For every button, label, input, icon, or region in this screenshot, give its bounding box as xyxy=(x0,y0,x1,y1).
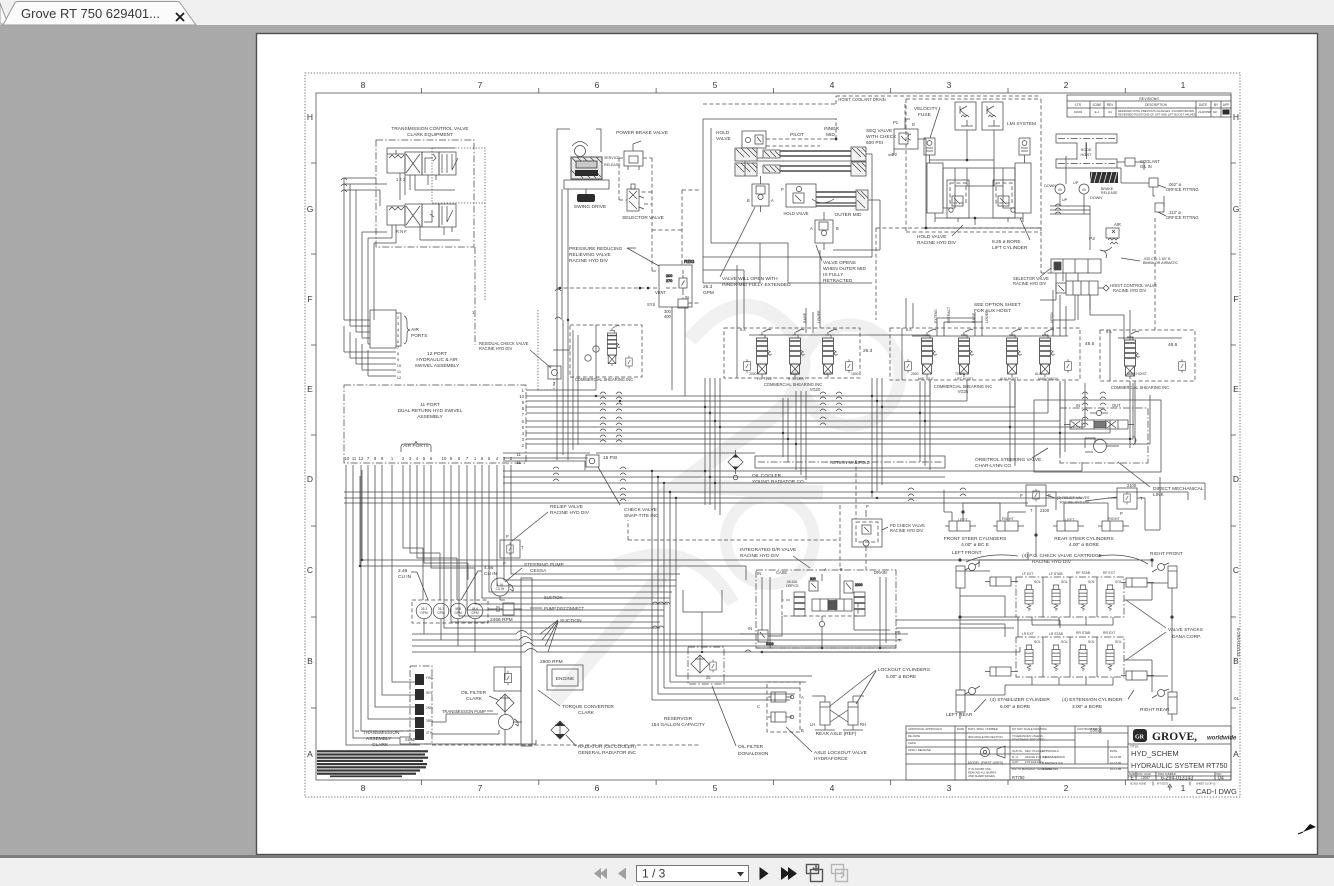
valve V2 body xyxy=(387,204,456,227)
hold valve sub-box right xyxy=(993,180,1015,218)
svg-text:(4) STABILIZER CYLINDER: (4) STABILIZER CYLINDER xyxy=(990,697,1050,703)
svg-text:SOL: SOL xyxy=(1034,640,1041,644)
svg-text:SOL: SOL xyxy=(1061,640,1068,644)
center spool horizontal xyxy=(812,599,852,611)
svg-text:PUMP DISCONNECT: PUMP DISCONNECT xyxy=(544,606,584,611)
svg-text:HOLD VALVE: HOLD VALVE xyxy=(917,234,946,240)
svg-text:RACINE HYD DIV: RACINE HYD DIV xyxy=(479,346,512,351)
wires from transmission valves to left bus xyxy=(344,148,460,344)
corner cylinder top-left xyxy=(956,562,980,596)
svg-text:WT (EST): WT (EST) xyxy=(1157,783,1168,786)
svg-text:6: 6 xyxy=(595,80,600,90)
pump disconnect xyxy=(503,603,514,615)
svg-text:RIGHT REAR: RIGHT REAR xyxy=(1140,707,1170,713)
svg-text:MID: MID xyxy=(826,132,835,138)
corner cylinder top-right xyxy=(1152,563,1177,596)
svg-text:GR: GR xyxy=(1135,735,1145,741)
bank spool left group xyxy=(607,325,620,366)
svg-text:IN: IN xyxy=(748,626,752,631)
svg-text:D: D xyxy=(1233,474,1239,484)
dotted pilot box xyxy=(432,148,485,300)
selector valve bar xyxy=(1051,259,1101,273)
grid column numbers bottom xyxy=(361,783,1186,793)
check ball xyxy=(1096,410,1101,415)
svg-text:P: P xyxy=(1020,493,1023,498)
return manifold bar xyxy=(755,456,945,468)
svg-text:PORTS: PORTS xyxy=(411,333,427,339)
svg-text:1 / 3: 1 / 3 xyxy=(642,867,666,881)
left vertical wires swing drive down xyxy=(557,188,562,460)
svg-text:2000: 2000 xyxy=(855,583,863,587)
svg-text:RESERVOIR: RESERVOIR xyxy=(664,716,693,722)
svg-text:ASSEMBLY: ASSEMBLY xyxy=(366,736,392,742)
toolbar separator xyxy=(0,855,1334,858)
svg-text:DOWN: DOWN xyxy=(1090,196,1102,200)
suction wavy lines crossing column xyxy=(412,631,908,653)
svg-text:8.25 ø BORE: 8.25 ø BORE xyxy=(992,239,1021,245)
svg-text:AUX: AUX xyxy=(1035,372,1043,376)
svg-text:48.6: 48.6 xyxy=(1168,342,1178,348)
cylinder base wires xyxy=(935,213,1023,225)
wires into 12 port swivel xyxy=(344,320,396,376)
dashed riser near orifice column xyxy=(1154,218,1156,330)
svg-text:3RD.: 3RD. xyxy=(426,719,433,723)
swing drive brake knob xyxy=(577,194,595,202)
svg-text:SOL: SOL xyxy=(1061,580,1068,584)
svg-text:VALVE OPENS: VALVE OPENS xyxy=(823,260,856,266)
svg-text:6.00" ø BORE: 6.00" ø BORE xyxy=(1000,704,1030,710)
hoist control valve xyxy=(1056,281,1109,295)
svg-text:RAISE: RAISE xyxy=(972,312,976,323)
svg-text:48.6: 48.6 xyxy=(1085,341,1095,347)
svg-text:P2: P2 xyxy=(892,152,898,157)
svg-text:RIGHT: RIGHT xyxy=(1108,517,1120,521)
svg-text:B A: B A xyxy=(906,328,912,332)
svg-text:TDWR: TDWR xyxy=(955,372,966,376)
svg-text:AND SHARP EDGES: AND SHARP EDGES xyxy=(968,774,995,778)
svg-text:2.46: 2.46 xyxy=(398,568,408,574)
svg-text:H: H xyxy=(307,112,313,122)
svg-text:1: 1 xyxy=(1181,783,1186,793)
svg-text:ORFICE FITTING: ORFICE FITTING xyxy=(1166,187,1199,192)
REG block xyxy=(659,259,695,307)
grid tick marks top/bottom xyxy=(311,88,1236,785)
svg-text:APPROVALS: APPROVALS xyxy=(1042,749,1059,753)
grid row letters left xyxy=(307,112,314,759)
lift cylinder right xyxy=(1003,163,1031,213)
svg-text:2466 RPM: 2466 RPM xyxy=(490,617,513,623)
stack wires xyxy=(959,559,1174,695)
inner mid rod line xyxy=(745,158,866,176)
svg-text:E: E xyxy=(307,384,313,394)
svg-text:SYS: SYS xyxy=(647,302,655,307)
bottom port numbers row xyxy=(345,456,513,461)
hold valve B/A below bar xyxy=(752,176,769,212)
svg-text:VALVE STACKS: VALVE STACKS xyxy=(1168,627,1203,633)
svg-text:2500: 2500 xyxy=(911,372,919,376)
left cell tiny labels xyxy=(908,727,1122,778)
swing drive arc xyxy=(572,142,588,147)
svg-text:3.00" ø BORE: 3.00" ø BORE xyxy=(1072,704,1102,710)
swing drive top circle xyxy=(575,146,586,157)
svg-text:6-294-013143: 6-294-013143 xyxy=(1236,628,1241,657)
svg-text:HOIST COOLANT DRAIN: HOIST COOLANT DRAIN xyxy=(838,97,885,102)
svg-text:LMI SYSTEM: LMI SYSTEM xyxy=(1007,121,1036,127)
svg-text:APFD / RELEASE: APFD / RELEASE xyxy=(908,748,931,752)
orifice fitting 062 xyxy=(1149,178,1158,187)
rear steer relief valve xyxy=(1117,488,1137,509)
svg-text:LOWER: LOWER xyxy=(817,310,821,323)
svg-text:26.3: 26.3 xyxy=(863,348,873,354)
D/R wires xyxy=(740,574,1020,652)
svg-text:11 PORT: 11 PORT xyxy=(420,402,440,408)
upper trunk bundle from swivel to valve banks xyxy=(526,325,1150,444)
svg-text:UP/DN: UP/DN xyxy=(1050,312,1054,323)
leftover tab fragment xyxy=(0,3,8,24)
PO check valve xyxy=(852,510,882,547)
svg-text:AIR PORTS: AIR PORTS xyxy=(403,443,429,449)
oil filter donaldson box xyxy=(688,647,724,684)
svg-text:HYD_SCHEM: HYD_SCHEM xyxy=(1131,749,1179,758)
svg-text:DEC. PLACES: DEC. PLACES xyxy=(1025,749,1044,753)
svg-text:4.00": 4.00" xyxy=(1012,760,1018,764)
inner dashed box xyxy=(782,600,858,616)
svg-text:OUT: OUT xyxy=(1112,403,1121,408)
swing drive motor body (hatched) xyxy=(571,157,602,179)
svg-text:SOL: SOL xyxy=(1088,640,1095,644)
svg-text:EXTEND: EXTEND xyxy=(934,309,938,323)
svg-text:RE-DATE: RE-DATE xyxy=(908,734,920,738)
selector valve drops xyxy=(1053,273,1075,336)
svg-text:RR EXT: RR EXT xyxy=(1103,631,1115,635)
svg-text:SHEET 01 OF 03: SHEET 01 OF 03 xyxy=(1196,783,1216,786)
svg-text:E: E xyxy=(1233,384,1239,394)
svg-text:ASSEMBLY: ASSEMBLY xyxy=(417,414,443,420)
svg-text:R.BARTHOLOW: R.BARTHOLOW xyxy=(1042,761,1063,765)
svg-text:AIR: AIR xyxy=(1114,222,1121,227)
svg-text:HYDRAULIC & AIR: HYDRAULIC & AIR xyxy=(416,357,458,363)
svg-text:600 PSI: 600 PSI xyxy=(866,140,883,146)
front steer relief valve xyxy=(1026,485,1046,506)
svg-text:8: 8 xyxy=(361,80,366,90)
hump crossings lower xyxy=(553,467,966,501)
transmission assembly box xyxy=(410,666,432,744)
svg-text:GPM: GPM xyxy=(454,611,462,615)
dashed enclosure of lift circuit xyxy=(906,99,1041,232)
12 port swivel box xyxy=(370,310,396,348)
svg-text:4TH.: 4TH. xyxy=(426,731,433,735)
svg-text:REVISIONS: REVISIONS xyxy=(1139,97,1159,101)
svg-text:WITH CHECK: WITH CHECK xyxy=(866,134,897,140)
svg-text:(4) EXTENSION CYLINDER: (4) EXTENSION CYLINDER xyxy=(1062,697,1123,703)
brake release hatched block xyxy=(1090,172,1118,183)
svg-text:12067: 12067 xyxy=(1141,776,1150,780)
svg-text:B: B xyxy=(747,198,750,203)
svg-text:LF EXT: LF EXT xyxy=(1022,572,1034,576)
torque converter tall column xyxy=(521,578,532,746)
dashed box lower right xyxy=(876,228,1041,320)
svg-text:AUX HOIST: AUX HOIST xyxy=(1000,377,1018,381)
transmission wires xyxy=(432,667,522,734)
svg-text:3: 3 xyxy=(947,783,952,793)
svg-text:10: 10 xyxy=(519,394,524,399)
corner cylinder bottom-right xyxy=(1152,689,1177,721)
P hold valve xyxy=(786,184,816,207)
projection symbol xyxy=(980,746,1005,758)
reservoir tank xyxy=(683,590,722,650)
15 psi check valve xyxy=(586,455,599,467)
svg-text:FRONT STEER CYLINDERS: FRONT STEER CYLINDERS xyxy=(944,536,1007,542)
svg-text:RELEASE: RELEASE xyxy=(1101,191,1118,195)
upper dana stack xyxy=(1016,577,1124,617)
svg-text:SWIVEL ASSEMBLY: SWIVEL ASSEMBLY xyxy=(415,363,460,369)
wavy crossing marks on left bus xyxy=(341,178,347,192)
tab close x xyxy=(176,13,184,21)
svg-text:TORQUE CONVERTER: TORQUE CONVERTER xyxy=(562,704,614,710)
corner cylinder bottom-left xyxy=(956,686,980,719)
svg-text:VALVE: VALVE xyxy=(716,136,731,142)
svg-text:P1: P1 xyxy=(893,120,899,125)
wires right to lift area xyxy=(712,154,872,257)
svg-text:HOLD VALVE: HOLD VALVE xyxy=(783,211,808,216)
svg-text:RELEASE: RELEASE xyxy=(604,163,621,167)
svg-text:AIR: AIR xyxy=(411,327,420,333)
svg-text:LEFT REAR: LEFT REAR xyxy=(946,712,973,718)
outer boundary wires xyxy=(703,119,837,257)
svg-text:OUTER MID: OUTER MID xyxy=(835,212,862,218)
svg-text:RACINE HYD DIV: RACINE HYD DIV xyxy=(550,510,590,516)
svg-text:RAISE: RAISE xyxy=(803,312,807,323)
hold valve sub-box left xyxy=(947,180,969,218)
svg-text:GK: GK xyxy=(1213,110,1217,114)
svg-text:B: B xyxy=(836,226,839,231)
svg-text:P: P xyxy=(1120,511,1123,516)
svg-text:LH: LH xyxy=(810,722,815,727)
svg-text:LTR: LTR xyxy=(1075,103,1081,107)
sheet pointer mark xyxy=(1168,784,1172,790)
svg-text:C: C xyxy=(757,704,760,709)
svg-text:4: 4 xyxy=(830,80,835,90)
valve bank VG35 xyxy=(890,328,1080,380)
vertical drops from valve banks xyxy=(705,378,1135,515)
svg-text:CU IN: CU IN xyxy=(484,571,498,577)
svg-text:REV.: REV. xyxy=(426,691,433,695)
svg-text:P: P xyxy=(1048,493,1051,498)
svg-text:2: 2 xyxy=(1064,783,1069,793)
svg-text:12: 12 xyxy=(359,456,364,461)
svg-text:ORBITROL STEERING VALVE: ORBITROL STEERING VALVE xyxy=(975,457,1041,463)
right spool xyxy=(854,592,865,616)
svg-text:LIFT: LIFT xyxy=(824,372,831,376)
svg-text:LEFT FRONT: LEFT FRONT xyxy=(952,550,982,556)
svg-text:12: 12 xyxy=(397,375,402,380)
wires hoist to coolant xyxy=(1117,162,1164,207)
horizontal cylinders xyxy=(985,577,1018,586)
svg-text:A: A xyxy=(801,695,804,700)
svg-text:LEFT: LEFT xyxy=(1065,518,1075,522)
svg-text:SNAP-TITE INC: SNAP-TITE INC xyxy=(624,513,659,519)
svg-text:SUCTION: SUCTION xyxy=(560,618,582,624)
svg-text:10: 10 xyxy=(397,363,402,368)
svg-text:A: A xyxy=(1233,749,1239,759)
bottom toolbar xyxy=(0,858,1334,886)
lower trunk bundle xyxy=(346,453,755,745)
svg-text:COMMERCIAL SHEARING INC: COMMERCIAL SHEARING INC xyxy=(1111,385,1169,390)
svg-text:04: 04 xyxy=(1218,776,1224,782)
svg-text:PB: PB xyxy=(895,630,901,635)
svg-text:A: A xyxy=(810,226,813,231)
pump circles row xyxy=(412,600,488,623)
svg-text:D: D xyxy=(307,474,313,484)
swing drive base plate xyxy=(564,180,609,189)
svg-text:GPM: GPM xyxy=(703,290,714,296)
svg-text:CESSA: CESSA xyxy=(530,568,547,574)
hump crossings on trunk xyxy=(600,392,1106,442)
LMI solenoid box 1 xyxy=(955,102,976,130)
svg-text:RT750: RT750 xyxy=(1012,775,1025,780)
svg-text:REVERSED POSITIONS OF LIFT AND: REVERSED POSITIONS OF LIFT AND LIFT BOOS… xyxy=(1118,113,1196,117)
tab bar xyxy=(0,0,1334,25)
svg-text:CHKD: CHKD xyxy=(908,741,916,745)
svg-text:RF EXT: RF EXT xyxy=(1103,571,1115,575)
svg-text:FWD.: FWD. xyxy=(426,676,434,680)
dashed risers above D/R xyxy=(628,460,866,570)
svg-text:10-17-86: 10-17-86 xyxy=(1110,761,1122,765)
hoist wires xyxy=(1060,142,1086,214)
svg-text:TRANSMISSION CONTROL VALVE: TRANSMISSION CONTROL VALVE xyxy=(391,126,468,132)
svg-text:RETRACT: RETRACT xyxy=(947,307,951,323)
svg-text:3: 3 xyxy=(947,80,952,90)
svg-text:1 2 3: 1 2 3 xyxy=(396,177,406,182)
svg-text:P: P xyxy=(503,561,506,566)
svg-text:16003: 16003 xyxy=(1074,110,1083,114)
svg-text:OIL FILTER: OIL FILTER xyxy=(461,690,487,696)
svg-text:HOIST: HOIST xyxy=(1081,153,1093,157)
svg-text:IN: IN xyxy=(757,571,761,576)
air ports brace label xyxy=(404,316,410,344)
watermark ghost (behind ink) xyxy=(555,306,900,700)
svg-text:GENERAL RADIATOR INC: GENERAL RADIATOR INC xyxy=(578,750,637,756)
svg-text:154 GALLON CAPACITY: 154 GALLON CAPACITY xyxy=(651,722,706,728)
svg-text:DESCRIPTION: DESCRIPTION xyxy=(1145,103,1167,107)
svg-text:VG20: VG20 xyxy=(810,387,821,392)
svg-text:6.00" ø BORE: 6.00" ø BORE xyxy=(886,674,916,680)
REG internal valve xyxy=(679,275,687,291)
svg-text:LIFT HOIST: LIFT HOIST xyxy=(955,377,973,381)
svg-text:R. STEER: R. STEER xyxy=(788,377,804,381)
svg-text:MID TELE: MID TELE xyxy=(918,377,934,381)
residual check valve bank (left of VG20) xyxy=(570,325,642,377)
svg-text:REG: REG xyxy=(684,259,695,265)
svg-text:LOWER: LOWER xyxy=(985,310,989,323)
svg-text:8: 8 xyxy=(361,783,366,793)
svg-text:10-17-86: 10-17-86 xyxy=(1110,767,1122,771)
svg-text:11: 11 xyxy=(352,456,357,461)
svg-text:RH: RH xyxy=(860,722,866,727)
svg-text:G: G xyxy=(307,204,314,214)
svg-text:FOR AUX HOIST: FOR AUX HOIST xyxy=(974,308,1011,314)
svg-text:VENT: VENT xyxy=(655,290,666,295)
enclosure dash-dot box xyxy=(376,140,474,247)
svg-text:12 PORT: 12 PORT xyxy=(427,351,447,357)
grid row letters right xyxy=(1233,112,1240,759)
svg-text:LR EXT: LR EXT xyxy=(1022,632,1034,636)
svg-text:DRAIN: DRAIN xyxy=(874,570,887,575)
svg-text:CHAR-LYNN CO: CHAR-LYNN CO xyxy=(975,463,1011,469)
svg-text:UP: UP xyxy=(1073,181,1079,185)
svg-text:YOUNG RADIATOR CO.: YOUNG RADIATOR CO. xyxy=(752,479,805,485)
svg-text:4.00" ø BORE: 4.00" ø BORE xyxy=(1069,542,1099,548)
svg-text:WHEN OUTER MID: WHEN OUTER MID xyxy=(823,266,866,272)
svg-text:10: 10 xyxy=(345,456,350,461)
svg-text:SOL: SOL xyxy=(1115,640,1122,644)
svg-text:PILOT: PILOT xyxy=(790,132,804,138)
svg-text:REAR STEER CYLINDERS: REAR STEER CYLINDERS xyxy=(1054,536,1113,542)
lift cylinder left xyxy=(927,163,955,213)
grove logo xyxy=(1133,729,1237,743)
outer dashed trim border xyxy=(305,73,1240,797)
svg-text:ORFICE FITTING: ORFICE FITTING xyxy=(1166,215,1199,220)
engine block xyxy=(547,665,583,690)
bottom left 3000 valve xyxy=(758,630,768,642)
svg-text:6: 6 xyxy=(595,783,600,793)
svg-text:DANA CORP.: DANA CORP. xyxy=(1172,634,1201,640)
svg-text:04: 04 xyxy=(1108,110,1112,114)
11 port dual return swivel dash-dot box xyxy=(344,385,526,463)
svg-text:LF STAB: LF STAB xyxy=(1049,572,1063,576)
svg-text:B: B xyxy=(307,656,313,666)
svg-text:CU IN: CU IN xyxy=(398,574,412,580)
nav next button xyxy=(760,867,769,880)
svg-text:CLARK: CLARK xyxy=(578,710,595,716)
svg-text:55026: 55026 xyxy=(1090,728,1103,733)
svg-text:IN./D.IN.: IN./D.IN. xyxy=(1012,749,1023,753)
svg-text:RACINE HYD DIV: RACINE HYD DIV xyxy=(890,528,923,533)
coolant oil in xyxy=(1125,158,1135,166)
svg-text:GPM: GPM xyxy=(471,611,479,615)
svg-text:26.3: 26.3 xyxy=(703,284,713,290)
svg-text:SEQ VALVE: SEQ VALVE xyxy=(866,128,892,134)
wires in hoist region xyxy=(1040,273,1090,320)
title block outer xyxy=(906,726,1231,780)
svg-text:P: P xyxy=(866,504,869,509)
outer mid cylinder xyxy=(812,190,868,210)
svg-text:CLARK: CLARK xyxy=(466,696,483,702)
svg-text:DIRECT MECHANICAL: DIRECT MECHANICAL xyxy=(1153,486,1204,492)
svg-text:01: 01 xyxy=(1234,696,1240,701)
lockout cylinders xyxy=(812,696,864,730)
svg-text:worldwide: worldwide xyxy=(1207,736,1237,742)
svg-text:(2) RELIEF VALVES: (2) RELIEF VALVES xyxy=(1057,496,1090,500)
svg-text:RACINE HYD DIV: RACINE HYD DIV xyxy=(740,553,780,559)
svg-text:B A: B A xyxy=(1106,330,1112,334)
svg-text:ADDITIONAL APPROVALS: ADDITIONAL APPROVALS xyxy=(908,727,942,731)
svg-text:UP: UP xyxy=(1062,198,1068,202)
swing drive outer loop wire xyxy=(557,129,601,188)
svg-text:MAIN HOIST: MAIN HOIST xyxy=(1127,372,1147,376)
svg-text:2100: 2100 xyxy=(1127,483,1137,488)
svg-text:SOL: SOL xyxy=(1034,580,1041,584)
svg-text:H: H xyxy=(1233,112,1239,122)
svg-text:FLT TELE: FLT TELE xyxy=(757,377,773,381)
svg-text:RELIEF VALVE: RELIEF VALVE xyxy=(550,504,583,510)
svg-text:A: A xyxy=(771,198,774,203)
svg-text:SOL: SOL xyxy=(1115,580,1122,584)
valve bank 3 (single) xyxy=(1100,330,1195,381)
svg-text:D: D xyxy=(912,122,915,127)
white document page xyxy=(257,34,1318,855)
lower valve A/B xyxy=(815,212,833,250)
